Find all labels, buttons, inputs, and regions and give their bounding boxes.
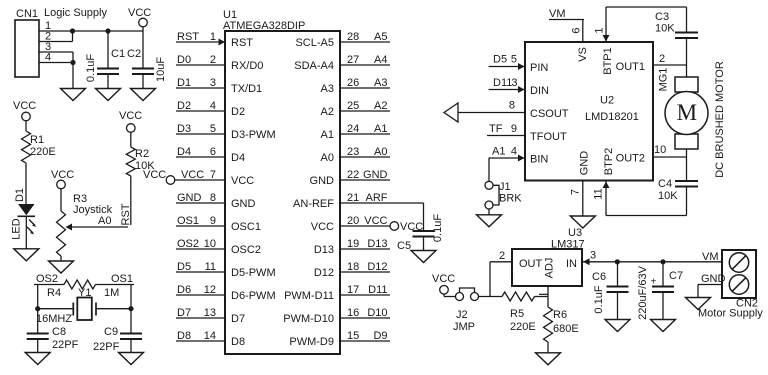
svg-text:OUT: OUT bbox=[519, 258, 543, 270]
junction C1 bbox=[105, 28, 110, 33]
svg-text:R4: R4 bbox=[47, 287, 61, 299]
svg-text:21: 21 bbox=[347, 192, 359, 204]
svg-text:8: 8 bbox=[509, 100, 515, 112]
wire ADJ bbox=[547, 286, 549, 307]
wire CN2 gnd bbox=[698, 284, 722, 286]
svg-text:1: 1 bbox=[210, 31, 216, 43]
svg-text:SCL-A5: SCL-A5 bbox=[295, 37, 334, 49]
svg-text:R5: R5 bbox=[510, 308, 524, 320]
IC U1 ATMEGA328DIP bbox=[225, 31, 340, 354]
U1 pin 26 A3 bbox=[340, 87, 390, 89]
resistor R1 bbox=[25, 121, 27, 131]
LED D1 bbox=[18, 204, 35, 215]
svg-text:D13: D13 bbox=[314, 244, 334, 256]
svg-text:PWM-D11: PWM-D11 bbox=[284, 290, 334, 302]
ground (C2) bbox=[131, 89, 156, 101]
U1 pin 8 GND bbox=[176, 202, 225, 204]
svg-text:12: 12 bbox=[204, 284, 216, 296]
svg-text:1M: 1M bbox=[104, 287, 119, 299]
svg-text:VCC: VCC bbox=[181, 169, 204, 181]
U1 pin 19 D13 bbox=[340, 248, 390, 250]
svg-text:Motor Supply: Motor Supply bbox=[698, 308, 763, 320]
svg-text:A2: A2 bbox=[374, 100, 387, 112]
svg-text:GND: GND bbox=[310, 175, 335, 187]
svg-text:220E: 220E bbox=[510, 321, 536, 333]
svg-text:D11: D11 bbox=[368, 284, 387, 296]
U1 pin 28 A5 bbox=[340, 41, 390, 43]
svg-text:VCC: VCC bbox=[13, 100, 36, 112]
U1 pin 11 D5 bbox=[176, 271, 225, 273]
svg-text:SDA-A4: SDA-A4 bbox=[294, 60, 334, 72]
U1 pin 18 D12 bbox=[340, 271, 390, 273]
svg-text:A4: A4 bbox=[374, 54, 387, 66]
svg-text:BTP2: BTP2 bbox=[603, 148, 615, 176]
capacitor C8 bbox=[27, 333, 49, 335]
capacitor C6 bbox=[617, 262, 619, 287]
svg-text:D1: D1 bbox=[177, 77, 191, 89]
svg-text:C9: C9 bbox=[104, 326, 118, 338]
svg-text:19: 19 bbox=[347, 238, 359, 250]
svg-text:D3: D3 bbox=[177, 123, 191, 135]
svg-text:C3: C3 bbox=[655, 11, 669, 23]
svg-text:RST: RST bbox=[231, 37, 253, 49]
connector CN1 bbox=[15, 20, 39, 77]
ground (CN2) bbox=[686, 298, 711, 310]
svg-text:U3: U3 bbox=[568, 227, 582, 239]
wiper A0 bbox=[69, 226, 128, 228]
wire ARF to C5 bbox=[390, 202, 424, 204]
svg-text:A0: A0 bbox=[98, 215, 111, 227]
svg-text:BTP1: BTP1 bbox=[602, 47, 614, 75]
ground (CN1) bbox=[61, 89, 86, 101]
svg-text:PIN: PIN bbox=[530, 62, 548, 74]
junction CN1 GND bbox=[70, 60, 75, 65]
ground (C1) bbox=[96, 89, 121, 101]
svg-text:LED: LED bbox=[11, 218, 23, 239]
svg-text:D1: D1 bbox=[14, 188, 26, 202]
svg-text:D5: D5 bbox=[177, 261, 191, 273]
U1 pin 13 D7 bbox=[176, 317, 225, 319]
svg-text:24: 24 bbox=[347, 123, 359, 135]
svg-text:A3: A3 bbox=[321, 83, 334, 95]
U1 pin 5 D3 bbox=[176, 133, 225, 135]
svg-text:680E: 680E bbox=[553, 323, 579, 335]
svg-text:TX/D1: TX/D1 bbox=[231, 83, 262, 95]
U2 pin 5 PIN bbox=[489, 66, 525, 68]
svg-text:D7: D7 bbox=[177, 307, 191, 319]
svg-text:VCC: VCC bbox=[400, 221, 423, 233]
svg-text:10uF: 10uF bbox=[155, 57, 167, 82]
svg-text:VCC: VCC bbox=[311, 221, 334, 233]
svg-text:OS2: OS2 bbox=[36, 273, 58, 285]
svg-text:D8: D8 bbox=[231, 336, 245, 348]
svg-text:TFOUT: TFOUT bbox=[530, 131, 567, 143]
ground (C7) bbox=[651, 320, 676, 332]
svg-text:CN1: CN1 bbox=[16, 8, 38, 20]
junction CN1 VCC bbox=[70, 28, 75, 33]
svg-text:DIN: DIN bbox=[530, 85, 549, 97]
svg-text:OS2: OS2 bbox=[177, 238, 199, 250]
U1 pin 3 D1 bbox=[176, 87, 225, 89]
svg-text:27: 27 bbox=[347, 54, 359, 66]
svg-text:D4: D4 bbox=[231, 152, 245, 164]
U1 pin 10 OS2 bbox=[176, 248, 225, 250]
svg-text:BRK: BRK bbox=[499, 193, 522, 205]
svg-text:25: 25 bbox=[347, 100, 359, 112]
svg-text:10K: 10K bbox=[655, 23, 675, 35]
svg-text:D7: D7 bbox=[231, 313, 245, 325]
svg-text:OS1: OS1 bbox=[111, 273, 133, 285]
capacitor C1 bbox=[107, 31, 109, 69]
svg-text:6: 6 bbox=[210, 146, 216, 158]
ground (U2) bbox=[570, 216, 595, 228]
U1 pin 6 D4 bbox=[176, 156, 225, 158]
resistor R5 bbox=[502, 292, 535, 301]
svg-text:3: 3 bbox=[210, 77, 216, 89]
U1 pin 27 A4 bbox=[340, 64, 390, 66]
wire OUT2 to BTP2 bbox=[606, 215, 687, 217]
svg-text:GND: GND bbox=[231, 198, 256, 210]
svg-text:220E: 220E bbox=[30, 146, 56, 158]
ground (C5) bbox=[411, 251, 436, 263]
U1 pin 9 OS1 bbox=[176, 225, 225, 227]
svg-text:D0: D0 bbox=[177, 54, 191, 66]
U2 pin 1 BTP1 bbox=[605, 7, 607, 42]
svg-text:4: 4 bbox=[511, 146, 517, 158]
IC U3 LM317 bbox=[512, 249, 582, 286]
U2 pin 3 DIN bbox=[489, 89, 525, 91]
svg-text:6: 6 bbox=[571, 27, 583, 33]
svg-text:10: 10 bbox=[654, 144, 666, 156]
svg-text:GND: GND bbox=[363, 169, 388, 181]
svg-text:17: 17 bbox=[347, 284, 359, 296]
svg-text:OSC1: OSC1 bbox=[231, 221, 261, 233]
connector CN2 bbox=[722, 250, 756, 298]
svg-text:ATMEGA328DIP: ATMEGA328DIP bbox=[223, 20, 305, 32]
svg-text:22PF: 22PF bbox=[93, 341, 120, 353]
svg-text:0.1uF: 0.1uF bbox=[85, 54, 97, 82]
wire osc left bbox=[37, 285, 39, 334]
svg-text:BIN: BIN bbox=[530, 154, 548, 166]
ground (C9) bbox=[119, 353, 144, 365]
U1 pin 15 D9 bbox=[340, 340, 390, 342]
svg-text:OSC2: OSC2 bbox=[231, 244, 261, 256]
svg-text:A1: A1 bbox=[374, 123, 387, 135]
U1 pin 22 GND bbox=[340, 179, 390, 181]
svg-text:D2: D2 bbox=[177, 100, 191, 112]
svg-text:RST: RST bbox=[120, 203, 132, 225]
svg-text:4: 4 bbox=[210, 100, 216, 112]
svg-text:0.1uF: 0.1uF bbox=[593, 285, 605, 313]
U2 pin 8 CSOUT bbox=[458, 112, 525, 114]
jumper J1 bbox=[485, 181, 493, 189]
U2 pin 2 OUT1 bbox=[653, 64, 687, 66]
svg-text:D11: D11 bbox=[493, 77, 512, 89]
U1 pin 17 D11 bbox=[340, 294, 390, 296]
svg-text:2: 2 bbox=[659, 53, 665, 65]
U1 pin 4 D2 bbox=[176, 110, 225, 112]
svg-text:16: 16 bbox=[347, 307, 359, 319]
svg-text:J2: J2 bbox=[456, 309, 468, 321]
svg-text:RX/D0: RX/D0 bbox=[231, 60, 263, 72]
wire J1 gnd bbox=[488, 209, 490, 215]
svg-text:8: 8 bbox=[210, 192, 216, 204]
svg-text:D5: D5 bbox=[493, 54, 507, 66]
svg-text:D2: D2 bbox=[231, 106, 245, 118]
capacitor C5 bbox=[413, 230, 435, 232]
svg-text:VCC: VCC bbox=[364, 215, 387, 227]
svg-text:A1: A1 bbox=[492, 146, 505, 158]
ground (C8) bbox=[25, 353, 50, 365]
U2 pin 4 BIN bbox=[489, 157, 525, 159]
svg-text:VCC: VCC bbox=[432, 273, 455, 285]
svg-text:C4: C4 bbox=[658, 178, 672, 190]
svg-text:ARF: ARF bbox=[366, 192, 388, 204]
IC U2 LMD18201 bbox=[525, 42, 653, 181]
svg-text:LMD18201: LMD18201 bbox=[585, 111, 639, 123]
svg-text:C2: C2 bbox=[127, 48, 141, 60]
svg-text:D12: D12 bbox=[314, 267, 334, 279]
svg-text:OUT1: OUT1 bbox=[616, 61, 645, 73]
svg-text:C6: C6 bbox=[592, 271, 606, 283]
svg-text:D12: D12 bbox=[367, 261, 387, 273]
svg-text:11: 11 bbox=[205, 261, 216, 273]
svg-text:D3-PWM: D3-PWM bbox=[231, 129, 276, 141]
svg-text:D13: D13 bbox=[367, 238, 387, 250]
svg-text:14: 14 bbox=[204, 330, 216, 342]
svg-text:A2: A2 bbox=[321, 106, 334, 118]
svg-text:ADJ: ADJ bbox=[544, 258, 556, 279]
svg-text:A0: A0 bbox=[374, 146, 387, 158]
ground (R3) bbox=[49, 261, 74, 273]
svg-text:7: 7 bbox=[210, 169, 216, 181]
svg-text:D5-PWM: D5-PWM bbox=[231, 267, 276, 279]
svg-text:9: 9 bbox=[511, 123, 517, 135]
svg-text:PWM-D9: PWM-D9 bbox=[289, 336, 334, 348]
capacitor C2 bbox=[142, 31, 144, 69]
U2 pin 9 TFOUT bbox=[487, 135, 525, 137]
svg-text:A0: A0 bbox=[321, 152, 334, 164]
U1 pin 21 ARF bbox=[340, 202, 390, 204]
svg-text:0.1uF: 0.1uF bbox=[432, 214, 444, 242]
svg-text:3: 3 bbox=[511, 77, 517, 89]
U2 pin 6 VS bbox=[582, 20, 584, 43]
wire BIN to J1 bbox=[488, 158, 490, 181]
junction C7 bbox=[660, 259, 665, 264]
svg-text:DC BRUSHED MOTOR: DC BRUSHED MOTOR bbox=[714, 61, 726, 178]
svg-text:Logic Supply: Logic Supply bbox=[44, 7, 107, 19]
svg-text:3: 3 bbox=[590, 250, 596, 262]
U2 pin 10 OUT2 bbox=[653, 156, 687, 158]
svg-text:26: 26 bbox=[347, 77, 359, 89]
svg-text:22PF: 22PF bbox=[52, 339, 79, 351]
svg-text:15: 15 bbox=[347, 330, 359, 342]
potentiometer R3 bbox=[60, 189, 62, 211]
power VCC (U1 pin20) bbox=[390, 222, 399, 231]
jumper J2 bbox=[443, 294, 445, 297]
U1 pin 25 A2 bbox=[340, 110, 390, 112]
U1 pin 1 RST bbox=[176, 41, 225, 43]
capacitor C9 bbox=[120, 333, 142, 335]
wire osc right bbox=[130, 285, 132, 334]
junction OS2 bbox=[35, 306, 40, 311]
svg-text:MG1: MG1 bbox=[658, 68, 670, 92]
U1 pin 24 A1 bbox=[340, 133, 390, 135]
ground (R6) bbox=[536, 353, 561, 365]
svg-text:VM: VM bbox=[702, 251, 719, 263]
svg-text:IN: IN bbox=[566, 258, 577, 270]
wire CN1 gnd bbox=[72, 63, 74, 89]
svg-text:10: 10 bbox=[204, 238, 216, 250]
svg-text:D9: D9 bbox=[373, 330, 387, 342]
svg-text:C8: C8 bbox=[52, 326, 66, 338]
svg-text:D6-PWM: D6-PWM bbox=[231, 290, 276, 302]
svg-text:PWM-D10: PWM-D10 bbox=[283, 313, 334, 325]
crystal Y1 bbox=[38, 308, 74, 310]
svg-text:C5: C5 bbox=[397, 240, 411, 252]
U2 pin 11 BTP2 bbox=[605, 181, 607, 216]
wire osc top bbox=[34, 284, 64, 286]
svg-text:M: M bbox=[677, 100, 697, 125]
resistor R2 bbox=[130, 132, 132, 147]
svg-text:OUT2: OUT2 bbox=[616, 153, 645, 165]
svg-text:U2: U2 bbox=[600, 95, 614, 107]
svg-text:VCC: VCC bbox=[119, 110, 142, 122]
wire J2 to R5 bbox=[479, 296, 503, 298]
svg-text:R6: R6 bbox=[553, 309, 567, 321]
svg-text:GND: GND bbox=[701, 273, 726, 285]
svg-text:13: 13 bbox=[204, 307, 216, 319]
svg-text:1: 1 bbox=[594, 27, 606, 33]
svg-text:TF: TF bbox=[489, 123, 503, 135]
svg-text:D6: D6 bbox=[177, 284, 191, 296]
svg-text:18: 18 bbox=[347, 261, 359, 273]
capacitor C7 bbox=[662, 262, 664, 287]
U1 pin 20 VCC bbox=[340, 225, 390, 227]
svg-text:GND: GND bbox=[579, 151, 591, 176]
svg-text:R1: R1 bbox=[30, 134, 44, 146]
svg-text:+: + bbox=[651, 277, 657, 288]
resistor R4 1M bbox=[64, 280, 96, 289]
svg-text:9: 9 bbox=[210, 215, 216, 227]
svg-text:5: 5 bbox=[210, 123, 216, 135]
svg-text:23: 23 bbox=[347, 146, 359, 158]
svg-text:5: 5 bbox=[511, 54, 517, 66]
svg-text:16MHZ: 16MHZ bbox=[36, 313, 72, 325]
svg-text:RST: RST bbox=[177, 31, 199, 43]
capacitor C3 bbox=[675, 32, 698, 34]
resistor R6 bbox=[544, 307, 553, 342]
svg-text:D10: D10 bbox=[367, 307, 387, 319]
svg-text:R2: R2 bbox=[135, 148, 149, 160]
svg-text:OS1: OS1 bbox=[177, 215, 199, 227]
svg-text:220uF/63V: 220uF/63V bbox=[637, 265, 649, 319]
svg-text:D4: D4 bbox=[177, 146, 191, 158]
svg-text:20: 20 bbox=[347, 215, 359, 227]
svg-text:A3: A3 bbox=[374, 77, 387, 89]
svg-text:7: 7 bbox=[570, 189, 582, 195]
U1 pin 23 A0 bbox=[340, 156, 390, 158]
svg-text:2: 2 bbox=[499, 250, 505, 262]
U2 pin 7 GND bbox=[582, 181, 584, 216]
svg-text:4: 4 bbox=[45, 52, 51, 64]
svg-text:28: 28 bbox=[347, 31, 359, 43]
U1 pin 16 D10 bbox=[340, 317, 390, 319]
U1 pin 2 D0 bbox=[176, 64, 225, 66]
svg-text:10K: 10K bbox=[658, 190, 678, 202]
wire BTP1 to C3 bbox=[606, 6, 687, 8]
svg-text:2: 2 bbox=[210, 54, 216, 66]
wire VCC rail bbox=[73, 30, 144, 32]
junction OS1 bbox=[128, 306, 133, 311]
svg-text:Y1: Y1 bbox=[78, 287, 91, 299]
svg-text:VS: VS bbox=[577, 47, 589, 62]
svg-text:VCC: VCC bbox=[143, 169, 166, 181]
svg-text:VCC: VCC bbox=[231, 175, 254, 187]
svg-text:CSOUT: CSOUT bbox=[530, 108, 569, 120]
svg-text:22: 22 bbox=[347, 169, 359, 181]
ground (D1) bbox=[14, 249, 39, 261]
ground (J1) bbox=[477, 215, 502, 227]
svg-text:C1: C1 bbox=[111, 48, 125, 60]
svg-text:C7: C7 bbox=[669, 270, 683, 282]
ground (C6) bbox=[605, 320, 630, 332]
U1 pin 14 D8 bbox=[176, 340, 225, 342]
svg-text:AN-REF: AN-REF bbox=[293, 198, 334, 210]
capacitor C4 bbox=[675, 180, 698, 182]
svg-text:A5: A5 bbox=[374, 31, 387, 43]
svg-text:11: 11 bbox=[593, 188, 605, 199]
svg-text:LM317: LM317 bbox=[551, 239, 585, 251]
svg-text:GND: GND bbox=[177, 192, 202, 204]
svg-text:VCC: VCC bbox=[128, 7, 151, 19]
svg-text:J1: J1 bbox=[499, 181, 511, 193]
svg-text:JMP: JMP bbox=[453, 321, 475, 333]
U1 pin 12 D6 bbox=[176, 294, 225, 296]
svg-text:A1: A1 bbox=[321, 129, 334, 141]
svg-text:VM: VM bbox=[549, 8, 566, 20]
svg-text:D8: D8 bbox=[177, 330, 191, 342]
motor MG1 bbox=[686, 65, 688, 77]
svg-text:VCC: VCC bbox=[51, 169, 74, 181]
junction C6 bbox=[615, 259, 620, 264]
